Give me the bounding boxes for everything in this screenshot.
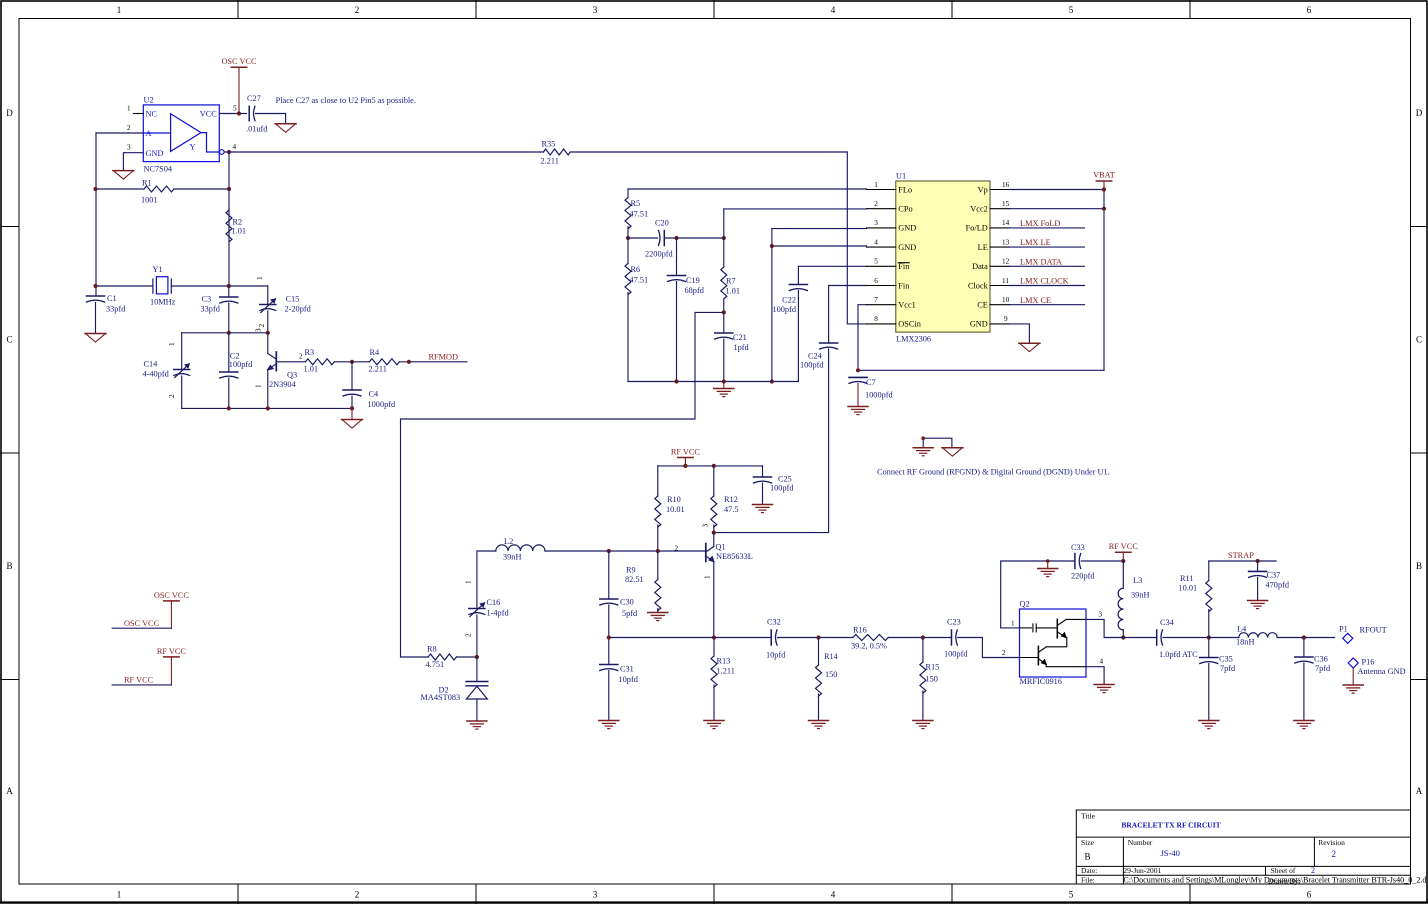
inductor L3 [1118, 561, 1123, 630]
svg-text:FLo: FLo [898, 185, 912, 194]
wire U2 pin2 to left column [96, 132, 143, 134]
svg-text:6: 6 [874, 277, 878, 285]
svg-text:Q2: Q2 [1020, 600, 1030, 609]
svg-text:2.211: 2.211 [541, 157, 559, 166]
svg-text:C7: C7 [866, 378, 876, 387]
wire Fin- row to C22 [798, 266, 866, 284]
svg-text:Y1: Y1 [153, 265, 163, 274]
svg-text:A: A [146, 129, 152, 138]
wire R1 left [96, 188, 145, 190]
svg-text:2N3904: 2N3904 [269, 380, 297, 389]
power VBAT [1096, 181, 1111, 190]
svg-text:C23: C23 [947, 618, 961, 627]
svg-text:4.751: 4.751 [426, 660, 445, 669]
svg-text:C: C [1416, 335, 1422, 345]
resistor R14 [816, 665, 822, 696]
svg-text:100pfd: 100pfd [800, 361, 824, 370]
svg-text:A: A [1416, 786, 1423, 796]
junction mid row Q3 [266, 331, 270, 335]
transistor Q1 NE85633L [706, 544, 714, 562]
svg-text:U1: U1 [896, 172, 906, 181]
svg-text:C19: C19 [686, 276, 700, 285]
svg-text:C3: C3 [202, 295, 212, 304]
svg-text:Size: Size [1081, 838, 1095, 847]
wire crystal row right [171, 285, 267, 287]
svg-text:R14: R14 [824, 652, 839, 661]
svg-text:1: 1 [1011, 620, 1015, 628]
svg-text:P1: P1 [1339, 625, 1348, 634]
diode D2 MA4ST083 varactor [466, 682, 488, 700]
connector P1 RFOUT diamond [1343, 633, 1353, 643]
power RF_VCC tie [164, 657, 179, 685]
junction R15 [921, 635, 925, 639]
svg-text:47.51: 47.51 [630, 210, 649, 219]
svg-text:C4: C4 [369, 390, 380, 399]
junction C37 [1256, 559, 1260, 563]
svg-text:2: 2 [1311, 866, 1315, 875]
resistor R1 [144, 186, 174, 192]
ground C35 (bars) [1199, 721, 1219, 729]
svg-text:82.51: 82.51 [625, 575, 644, 584]
wire CE [1010, 304, 1085, 306]
wire VCO supply rail [658, 465, 763, 467]
svg-text:39.2, 0.5%: 39.2, 0.5% [851, 642, 887, 651]
junction bottom C4 [350, 406, 354, 410]
svg-text:GND: GND [970, 320, 988, 329]
ground C27 [275, 124, 296, 133]
op-amp U2 inverter NC7S04 [143, 105, 224, 162]
svg-text:3: 3 [593, 5, 598, 15]
svg-text:GND: GND [146, 149, 164, 158]
svg-text:Data: Data [972, 262, 988, 271]
wire C16 bottom [476, 615, 478, 657]
wire feedback ground stub [1047, 561, 1049, 569]
wire pin9 GND [1010, 324, 1030, 343]
power OSC_VCC (top) [231, 67, 246, 113]
svg-text:R16: R16 [853, 626, 867, 635]
U2 pin 1 stub [133, 113, 143, 115]
capacitor C37 [1249, 571, 1267, 577]
svg-text:7: 7 [874, 296, 878, 304]
svg-text:1: 1 [255, 384, 263, 388]
svg-text:C25: C25 [778, 475, 792, 484]
wire Q1 base row [545, 550, 706, 552]
svg-text:Q1: Q1 [716, 543, 726, 552]
junction base C30 [607, 549, 611, 553]
ground Q2 pin4 (bars) [1094, 685, 1114, 693]
ground C4 [342, 420, 363, 429]
svg-text:R8: R8 [427, 645, 437, 654]
svg-text:VCC: VCC [200, 110, 218, 119]
wire C32 to R16 [778, 637, 853, 639]
svg-text:33pfd: 33pfd [106, 305, 126, 314]
wire R1 right [174, 188, 229, 190]
wire C35 column [1208, 638, 1210, 721]
svg-text:CPo: CPo [898, 205, 912, 214]
svg-text:1.01: 1.01 [726, 287, 741, 296]
svg-text:1: 1 [256, 276, 264, 280]
wire R12 column [713, 466, 715, 533]
resistor R4 [369, 359, 399, 365]
svg-text:R9: R9 [626, 566, 636, 575]
ground R14 (bars) [809, 721, 829, 729]
wire C22 bottom [797, 291, 799, 382]
wire Q1 emitter column [713, 562, 715, 638]
border zone letters left [6, 108, 13, 796]
resistor R10 [655, 496, 661, 527]
wire OSC VCC tie [112, 627, 171, 629]
svg-text:2: 2 [1332, 849, 1337, 859]
junction crystal left [93, 284, 97, 288]
capacitor C32 [771, 630, 777, 645]
capacitor C15 variable [260, 299, 276, 313]
junction U2 pin5 [237, 111, 241, 115]
svg-text:R12: R12 [724, 495, 738, 504]
junction trap node [1207, 635, 1211, 639]
svg-text:100pfd: 100pfd [944, 650, 968, 659]
wire R10 column [657, 466, 659, 551]
wire left column vertical [95, 133, 97, 296]
ground C36 (bars) [1294, 721, 1314, 729]
svg-text:.01ufd: .01ufd [246, 125, 268, 134]
junction R1 right [227, 187, 231, 191]
svg-text:10.01: 10.01 [1179, 584, 1198, 593]
Q2 internal transistor T2 [1020, 646, 1086, 666]
svg-text:CE: CE [977, 301, 988, 310]
wire C27 to ground [256, 114, 286, 124]
svg-text:LMX2306: LMX2306 [896, 335, 931, 344]
ground bus (bars) [714, 389, 734, 397]
junction VBAT pin16 [1102, 187, 1106, 191]
border zone numbers top [117, 5, 1312, 15]
svg-text:1: 1 [117, 890, 122, 900]
wire R11 column [1208, 561, 1210, 638]
svg-text:MA4ST083: MA4ST083 [421, 693, 461, 702]
svg-text:1000pfd: 1000pfd [865, 391, 894, 400]
svg-text:14: 14 [1002, 219, 1010, 227]
wire C31 column [608, 638, 610, 721]
junction C19 top [674, 236, 678, 240]
wire R14 column [818, 638, 820, 721]
wire bus ground stub [723, 382, 725, 389]
junction legend [921, 436, 925, 440]
wire RF VCC tie [112, 684, 171, 686]
resistor R9 [655, 580, 661, 611]
resistor R7 [721, 267, 727, 299]
junction C7 node [856, 368, 860, 372]
C16 pin numbers [465, 580, 473, 637]
svg-text:RF VCC: RF VCC [157, 647, 187, 656]
svg-text:29-Jun-2001: 29-Jun-2001 [1123, 866, 1161, 875]
wire crystal row left [96, 285, 153, 287]
svg-text:B: B [1416, 561, 1422, 571]
svg-text:Clock: Clock [968, 281, 989, 290]
wire Q2 pin1 feedback [1001, 561, 1075, 628]
svg-text:LMX DATA: LMX DATA [1020, 257, 1062, 266]
svg-text:18nH: 18nH [1236, 638, 1254, 647]
svg-text:R1: R1 [142, 179, 152, 188]
junction mid row C2 [227, 331, 231, 335]
svg-text:7pfd: 7pfd [1220, 664, 1236, 673]
svg-text:470pfd: 470pfd [1266, 581, 1290, 590]
svg-text:R15: R15 [926, 663, 940, 672]
U2 pin names [146, 110, 218, 158]
svg-text:LMX CE: LMX CE [1020, 296, 1051, 305]
svg-text:10: 10 [1002, 296, 1010, 304]
power RF_VCC (PA) [1116, 552, 1131, 561]
capacitor C21 [715, 333, 733, 339]
svg-text:100pfd: 100pfd [229, 360, 253, 369]
ground R15 (bars) [913, 721, 933, 729]
wire R9 column [657, 551, 659, 613]
wire Clock [1010, 285, 1085, 287]
wire L3 bottom [1122, 630, 1124, 638]
wire C21 bottom [723, 339, 725, 382]
ground feedback (bars) [1038, 569, 1058, 577]
Q1 pin numbers [675, 524, 712, 580]
svg-text:U2: U2 [144, 96, 154, 105]
wire C20 row [628, 237, 724, 239]
wire Vcc1 pin to VBAT rail [858, 305, 867, 371]
IC U1 LMX2306 body [896, 181, 990, 332]
Q2 internal input cap [1020, 624, 1058, 632]
U1 pin5 overline [898, 262, 909, 264]
wire U1 GND pins column [772, 228, 867, 230]
svg-text:LMX CLOCK: LMX CLOCK [1020, 277, 1069, 286]
wire Q2 pin3 to output row [1086, 619, 1157, 637]
junction bottom Q3 [266, 406, 270, 410]
svg-text:47.5: 47.5 [724, 505, 739, 514]
wire Fo/LD [1010, 227, 1085, 229]
svg-text:7pfd: 7pfd [1315, 664, 1331, 673]
svg-text:R5: R5 [631, 199, 641, 208]
svg-text:3: 3 [874, 219, 878, 227]
Q2 pin numbers [1002, 611, 1104, 666]
svg-text:150: 150 [825, 670, 837, 679]
svg-text:File:: File: [1081, 876, 1095, 885]
svg-text:Q3: Q3 [287, 371, 297, 380]
junction row C30/C31 [607, 635, 611, 639]
resistor R15 [920, 662, 926, 693]
svg-text:39nH: 39nH [503, 553, 521, 562]
ground U1 pin9 [1019, 343, 1040, 352]
svg-text:Connect RF Ground (RFGND) & Di: Connect RF Ground (RFGND) & Digital Grou… [877, 467, 1110, 476]
wire main row left [609, 637, 771, 639]
svg-text:OSCin: OSCin [898, 320, 921, 329]
svg-text:Sheet of: Sheet of [1271, 866, 1296, 875]
svg-text:15: 15 [1002, 200, 1010, 208]
wire VBAT rail vertical [1103, 190, 1105, 371]
U1 left pin numbers [874, 181, 878, 323]
svg-text:1: 1 [168, 342, 176, 346]
capacitor C2 [220, 372, 238, 378]
svg-text:LE: LE [978, 243, 988, 252]
svg-text:2200pfd: 2200pfd [645, 250, 674, 259]
svg-text:D: D [1416, 108, 1423, 118]
svg-text:1.01: 1.01 [232, 227, 247, 236]
wire R16 to C23 [888, 637, 951, 639]
svg-text:3: 3 [255, 328, 263, 332]
svg-text:R4: R4 [370, 348, 381, 357]
svg-text:5: 5 [1069, 890, 1074, 900]
junction Y output [227, 150, 231, 154]
wire pin4 GND row [772, 245, 867, 247]
svg-text:6: 6 [1307, 5, 1312, 15]
capacitor C19 [668, 276, 686, 282]
capacitor C4 [343, 390, 361, 396]
wire mid row [182, 332, 268, 334]
svg-text:Fin: Fin [898, 281, 910, 290]
svg-text:C32: C32 [767, 618, 781, 627]
svg-text:4: 4 [831, 890, 836, 900]
svg-text:RFOUT: RFOUT [1360, 626, 1387, 635]
svg-text:13: 13 [1002, 238, 1010, 246]
junction RFVCC L3 [1121, 559, 1125, 563]
junction row Q1 emitter R13 [712, 635, 716, 639]
svg-text:C33: C33 [1071, 543, 1085, 552]
svg-text:1: 1 [127, 105, 131, 113]
svg-text:2: 2 [258, 324, 266, 328]
svg-text:1: 1 [117, 5, 122, 15]
U1 right pin names [966, 185, 989, 328]
junction feedback ground [1046, 559, 1050, 563]
border zone numbers bottom [117, 890, 1312, 900]
svg-text:10MHz: 10MHz [150, 298, 176, 307]
svg-text:R11: R11 [1180, 574, 1194, 583]
wire VBAT horizontal rail [858, 369, 1104, 371]
svg-text:2-20pfd: 2-20pfd [285, 305, 312, 314]
capacitor C3 [220, 297, 238, 303]
resistor R6 [625, 264, 631, 295]
wire R2 column [228, 189, 230, 286]
svg-text:1.0pfd ATC: 1.0pfd ATC [1159, 650, 1198, 659]
wire LE [1010, 246, 1085, 248]
transistor Q2 MRFIC0916 box [1020, 609, 1087, 677]
svg-text:C34: C34 [1160, 618, 1175, 627]
resistor R13 [711, 656, 717, 687]
svg-text:C22: C22 [782, 296, 796, 305]
junction bus GND column [770, 379, 774, 383]
svg-text:R3: R3 [305, 348, 315, 357]
svg-text:33pfd: 33pfd [201, 305, 221, 314]
junction varactor node [475, 655, 479, 659]
wire Vp to VBAT [1010, 189, 1105, 191]
svg-text:1-4pfd: 1-4pfd [487, 609, 510, 618]
svg-text:10pfd: 10pfd [766, 651, 786, 660]
wire varactor drive loop [401, 312, 724, 657]
svg-text:5: 5 [1069, 5, 1074, 15]
wire C34 to trap node [1163, 637, 1239, 639]
wire R7 column [723, 238, 725, 333]
svg-text:L4: L4 [1237, 625, 1247, 634]
wire U2 output Y long run [224, 151, 543, 153]
wire C3 column [228, 286, 230, 333]
ground R13 (bars) [704, 721, 724, 729]
svg-text:RF VCC: RF VCC [124, 676, 154, 685]
svg-text:Drawn By:: Drawn By: [1268, 877, 1300, 886]
svg-text:C31: C31 [620, 665, 634, 674]
Q2 internal transistor T1 [1046, 619, 1085, 646]
svg-text:Title: Title [1081, 812, 1096, 821]
svg-text:1.01: 1.01 [304, 365, 319, 374]
ground R9 (bars) [648, 613, 668, 621]
wire CPo corner to R7 [723, 209, 725, 238]
C14 pin numbers [168, 342, 176, 398]
svg-text:A: A [6, 786, 13, 796]
svg-text:C14: C14 [144, 360, 159, 369]
connector P16 Antenna GND diamond [1348, 658, 1358, 668]
junction R5/C20 [626, 236, 630, 240]
wire C4 column [351, 362, 353, 409]
svg-text:2: 2 [355, 5, 360, 15]
wire R3 to R4 [334, 361, 369, 363]
resistor R11 [1206, 581, 1212, 612]
junction pin4 GND [770, 244, 774, 248]
svg-text:16: 16 [1002, 181, 1010, 189]
wire Q2 pin4 to ground [1086, 667, 1104, 685]
capacitor C25 [754, 477, 772, 483]
wire output column down [228, 152, 230, 189]
resistor R2 [226, 210, 232, 242]
svg-text:10pfd: 10pfd [619, 675, 639, 684]
svg-text:OSC VCC: OSC VCC [124, 619, 160, 628]
svg-text:C1: C1 [107, 294, 117, 303]
svg-text:1001: 1001 [141, 196, 158, 205]
svg-text:12: 12 [1002, 258, 1010, 266]
svg-text:2: 2 [355, 890, 360, 900]
svg-text:5: 5 [874, 258, 878, 266]
svg-text:Y: Y [190, 143, 196, 152]
svg-text:4-40pfd: 4-40pfd [143, 370, 170, 379]
svg-text:Vp: Vp [978, 185, 988, 194]
wire Vcc2 to VBAT [1010, 208, 1105, 210]
capacitor C30 [600, 599, 618, 605]
svg-text:GND: GND [898, 243, 916, 252]
svg-text:5: 5 [233, 105, 237, 113]
svg-text:C37: C37 [1267, 571, 1281, 580]
wire R6 column [627, 238, 629, 382]
junction bottom C2 [227, 406, 231, 410]
wire C7 ground stub [857, 383, 859, 406]
svg-text:RFMOD: RFMOD [429, 353, 459, 362]
svg-text:Number: Number [1128, 838, 1153, 847]
wire L2 left to C16 [477, 551, 496, 609]
U1 right pins [990, 190, 1010, 324]
junction rail RFVCC [683, 464, 687, 468]
svg-text:C27: C27 [247, 94, 261, 103]
svg-text:1.211: 1.211 [717, 667, 735, 676]
svg-text:220pfd: 220pfd [1071, 572, 1095, 581]
wire FLo row [628, 188, 867, 190]
svg-text:4: 4 [831, 5, 836, 15]
svg-text:11: 11 [1002, 277, 1009, 285]
junction rail R12 [712, 464, 716, 468]
svg-text:NC7S04: NC7S04 [144, 165, 173, 174]
wire STRAP row [1209, 560, 1276, 562]
wire Fin row to C24 [829, 286, 867, 344]
svg-text:2: 2 [1002, 649, 1006, 657]
svg-text:Revision: Revision [1318, 838, 1345, 847]
junction R14 [816, 635, 820, 639]
wire C2 column [228, 333, 230, 409]
junction RFMOD [407, 360, 411, 364]
transistor Q3 2N3904 [268, 352, 277, 371]
svg-text:Fo/LD: Fo/LD [966, 224, 988, 233]
wire Q3 emitter [267, 370, 269, 409]
wire GND column vertical [771, 229, 773, 382]
svg-text:C30: C30 [620, 598, 634, 607]
svg-text:B: B [1085, 852, 1091, 862]
